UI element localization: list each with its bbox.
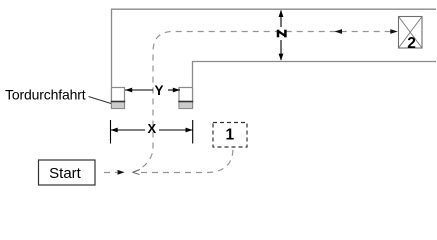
svg-text:Tordurchfahrt: Tordurchfahrt bbox=[5, 86, 86, 102]
svg-text:1: 1 bbox=[225, 126, 234, 143]
svg-text:Y: Y bbox=[154, 83, 163, 98]
svg-text:2: 2 bbox=[407, 35, 416, 52]
svg-text:Start: Start bbox=[49, 165, 82, 182]
svg-text:X: X bbox=[147, 121, 156, 136]
